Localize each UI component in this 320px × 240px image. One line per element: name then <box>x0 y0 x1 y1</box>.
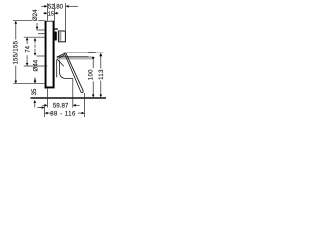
extension line lever tip to 88-116 <box>84 93 86 117</box>
hub sleeve back edge <box>56 60 58 78</box>
bottom reference line <box>31 97 107 99</box>
lever lower edge <box>59 55 81 93</box>
svg-text:52.80: 52.80 <box>48 5 64 11</box>
extension line knob front vertical <box>65 3 67 30</box>
dim Ø24 (vertical, arrow down) <box>36 23 38 27</box>
dim 35 (vertical, small) <box>34 77 36 81</box>
extension line lever crest height <box>64 52 89 54</box>
lever crest arc + upper diagonal <box>57 53 83 93</box>
dim Ø44 (vertical double arrow) <box>34 38 37 41</box>
plate top thin edge <box>45 20 55 22</box>
knob box <box>58 31 65 42</box>
extension line hub bottom <box>37 55 45 57</box>
svg-text:Ø44: Ø44 <box>32 59 39 71</box>
dim 15 <box>43 12 45 14</box>
extension line hub top <box>24 36 45 38</box>
dim 88-116 <box>37 107 42 109</box>
side view plate left bar (wall side) <box>45 21 47 89</box>
dim 52.80 <box>41 5 45 7</box>
extension line top of plate <box>13 20 45 22</box>
svg-text:15: 15 <box>48 11 54 17</box>
extension line plate front to 59.87 <box>47 89 49 108</box>
neck fill <box>55 31 57 40</box>
extension line wall face to 88-116 <box>44 106 46 117</box>
extension line spindle bottom <box>37 29 45 31</box>
extension line plate front vertical <box>46 3 48 21</box>
extension line unit bottom <box>13 83 44 85</box>
dim 59.87 <box>42 104 45 106</box>
svg-text:88 - 116: 88 - 116 <box>50 111 76 117</box>
svg-text:59.87: 59.87 <box>53 103 69 110</box>
side view plate right bar <box>53 21 55 87</box>
dim 155/155 (vertical) <box>15 21 18 24</box>
extension line body bottom <box>24 65 47 67</box>
gray lever band (horizontal handle position) <box>57 57 94 60</box>
extension line plate back vertical <box>53 3 55 21</box>
dim 74 (vertical) <box>26 37 29 40</box>
svg-text:Ø24: Ø24 <box>32 9 39 21</box>
svg-text:74: 74 <box>25 45 31 52</box>
extension line knob axis <box>38 33 45 35</box>
svg-text:113: 113 <box>99 69 105 80</box>
svg-text:155/155: 155/155 <box>14 40 20 64</box>
dim 113 (vertical) <box>99 53 102 56</box>
knob gray strip <box>59 32 61 41</box>
hub sleeve J outline <box>60 60 73 78</box>
lever inner short line <box>57 59 64 66</box>
plate bottom thick edge <box>45 87 55 89</box>
svg-text:100: 100 <box>89 69 95 80</box>
svg-text:35: 35 <box>32 88 38 95</box>
step to knob <box>55 28 58 29</box>
extension line handle base to 59.87 <box>72 79 74 108</box>
dim 100 (vertical) <box>92 57 95 60</box>
